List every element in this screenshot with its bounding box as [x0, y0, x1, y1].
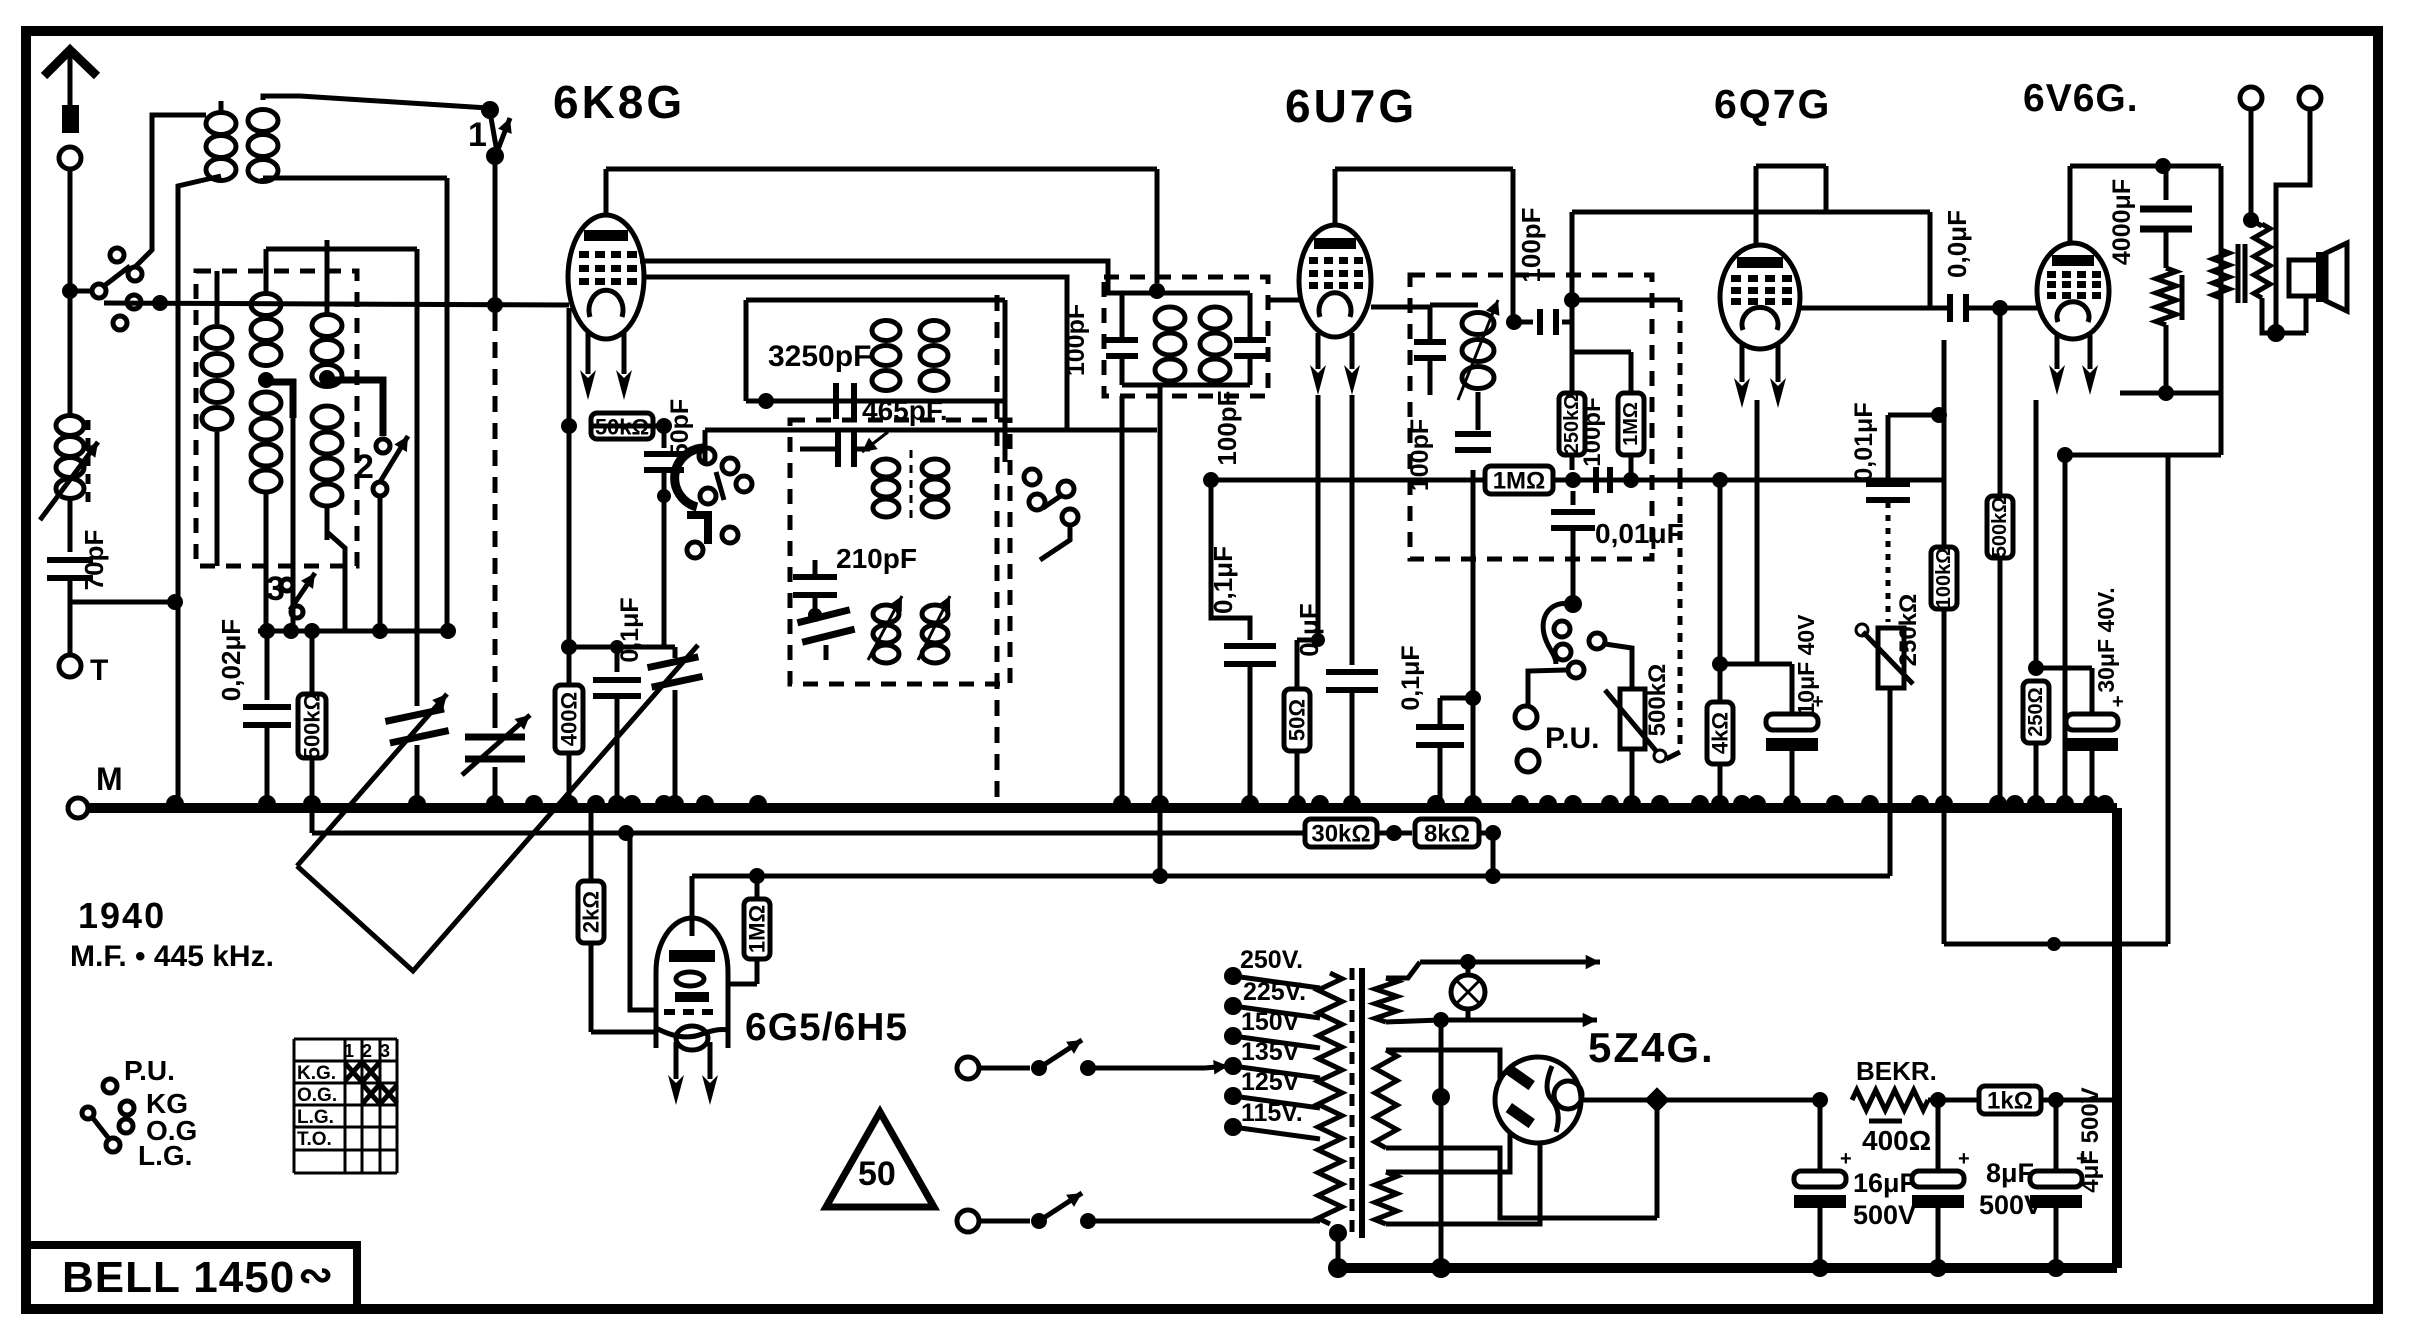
dashed box IF1	[1104, 277, 1268, 396]
svg-text:0,01μF: 0,01μF	[1595, 518, 1684, 549]
wire switch1 down	[493, 156, 498, 722]
wire 6Q7G grid	[1719, 420, 1721, 480]
resistor 400Ohm	[555, 647, 583, 753]
svg-text:100kΩ: 100kΩ	[1933, 548, 1955, 609]
wire IF1 left to bus	[1120, 396, 1125, 808]
svg-text:400Ω: 400Ω	[557, 692, 582, 746]
svg-text:1MΩ: 1MΩ	[1620, 402, 1642, 446]
wire 6V6G cath y455	[2057, 447, 2221, 808]
resistor 2kOhm	[578, 808, 658, 1032]
wire row to bus x267	[265, 631, 270, 700]
resistor 250kOhm	[1559, 352, 1585, 470]
capacitor 70pF	[47, 530, 109, 591]
wire 6Q7G cathode	[1755, 400, 1760, 664]
label 6G5/6H5	[745, 1006, 908, 1049]
output transformer secondary	[2243, 212, 2270, 298]
rotary contacts right	[1005, 401, 1078, 560]
triangle 50	[826, 1112, 934, 1207]
svg-text:+: +	[1958, 1148, 1970, 1170]
coil L5 tap elbow	[319, 370, 383, 436]
svg-text:3: 3	[380, 1041, 390, 1061]
svg-text:4000μF: 4000μF	[2108, 179, 2136, 265]
coil L4 lower	[251, 392, 281, 631]
svg-text:0,1μF: 0,1μF	[1397, 645, 1425, 710]
resistor 500kOhm	[298, 631, 326, 833]
capacitor 0,1uF c	[1397, 645, 1473, 808]
capacitor osc tuning	[647, 647, 702, 808]
tube 6G5 pins	[668, 1042, 718, 1105]
wire 6K8G plate y261	[640, 261, 1120, 293]
tube 6K8G	[568, 215, 644, 339]
svg-text:100pF: 100pF	[1579, 397, 1606, 466]
svg-text:M: M	[96, 761, 123, 797]
capacitor 465pF	[800, 395, 948, 467]
svg-text:1940: 1940	[78, 895, 166, 936]
resistor 8kOhm	[1415, 819, 1501, 876]
capacitor 50pF	[644, 399, 694, 647]
dashed box IF2	[1410, 275, 1652, 559]
resistor 30kOhm	[1283, 819, 1412, 848]
svg-text:P.U.: P.U.	[124, 1055, 175, 1086]
cap 8uF 500V	[1912, 1100, 2042, 1268]
radio/PU switch	[1543, 595, 1632, 688]
capacitor 3250pF tank	[746, 300, 1005, 419]
svg-text:K.G.: K.G.	[297, 1063, 336, 1084]
coil L1 primary	[206, 101, 236, 181]
coil L4 upper	[251, 249, 417, 366]
resistor 1kOhm	[1979, 1086, 2117, 1115]
capacitor det coupling	[1506, 169, 1572, 335]
cap 16uF 500V	[1794, 1100, 1916, 1268]
wire grid line y308	[104, 295, 569, 313]
band switch S1a	[70, 248, 142, 330]
svg-text:0,1μF: 0,1μF	[1208, 546, 1238, 614]
tap 150V	[1224, 1008, 1320, 1048]
capacitor 0,1uF a	[1208, 480, 1276, 808]
tone pot 250kOhm	[1856, 594, 1922, 876]
svg-text:T.O.: T.O.	[297, 1129, 332, 1150]
bottom power bus	[1328, 1258, 2117, 1278]
terminal out B	[2276, 87, 2321, 333]
svg-text:500V: 500V	[1853, 1200, 1916, 1230]
svg-text:8μF: 8μF	[1986, 1158, 2034, 1188]
wire grid feed	[1572, 300, 1680, 480]
svg-text:T: T	[90, 654, 108, 687]
wire feedback down	[2166, 393, 2168, 944]
cap 10uF 40V	[1720, 614, 1824, 808]
coil osc lower A	[868, 596, 902, 663]
label 100pF IF1	[1212, 390, 1242, 465]
coil L5 upper	[312, 240, 342, 387]
svg-text:0,01μF: 0,01μF	[1850, 402, 1878, 481]
wire L1 bottom down	[70, 176, 221, 808]
svg-text:100pF: 100pF	[1212, 390, 1242, 465]
mains switch top	[957, 1040, 1228, 1079]
capacitor 3250pF	[0, 0, 790, 390]
svg-text:4μF 500V: 4μF 500V	[2077, 1087, 2104, 1192]
label 1940	[78, 895, 166, 936]
svg-text:0,1μF: 0,1μF	[616, 597, 644, 662]
svg-text:2: 2	[362, 1041, 372, 1061]
dial lamp	[1451, 962, 1485, 1020]
svg-text:0,0μF: 0,0μF	[1942, 210, 1972, 278]
capacitor 4000pF	[2108, 166, 2192, 268]
wire x2221	[2219, 166, 2224, 455]
label 6Q7G	[1714, 81, 1831, 127]
AVC line A	[312, 825, 1283, 841]
resistor tone	[2156, 268, 2182, 401]
svg-text:50Ω: 50Ω	[1285, 699, 1310, 741]
cap 30uF 40V	[2036, 587, 2124, 808]
resistor 1MOhm h	[1485, 466, 1553, 495]
svg-text:125V: 125V	[1241, 1068, 1300, 1096]
tube 6Q7G pins	[1734, 345, 1786, 408]
wire cap to T	[68, 578, 73, 655]
svg-text:1kΩ: 1kΩ	[1987, 1088, 2033, 1115]
svg-text:210pF: 210pF	[836, 543, 917, 574]
dashed box oscillator	[790, 420, 1010, 684]
resistor 50Ohm	[1284, 633, 1325, 808]
IF2 cap left	[1414, 305, 1446, 395]
svg-text:L.G.: L.G.	[138, 1140, 192, 1171]
wire antenna down	[62, 169, 78, 415]
resistor BEKR 400Ohm	[1852, 1056, 1978, 1156]
wire x380 row-bus	[0, 0, 1, 1]
HT rail	[1667, 1092, 1828, 1108]
resistor 1MOhm 6G5	[728, 876, 770, 984]
tuning link arm	[297, 694, 447, 866]
wire IF1 right down	[1158, 385, 1163, 876]
svg-text:BELL 1450: BELL 1450	[62, 1253, 295, 1302]
wire 2221-393 to spk	[2220, 393, 2222, 455]
tube 5Z4G	[1495, 1057, 1582, 1143]
resistor 500kOhm grid	[1987, 308, 2013, 808]
tap 115V	[1224, 1099, 1320, 1139]
PU input cluster	[82, 1055, 197, 1171]
variable cap osc box	[797, 610, 854, 660]
svg-text:6G5/6H5: 6G5/6H5	[745, 1006, 908, 1049]
tap 225V	[1224, 978, 1320, 1018]
coil L2 secondary	[248, 110, 278, 182]
svg-text:70pF: 70pF	[79, 530, 109, 591]
svg-text:500kΩ: 500kΩ	[1644, 664, 1671, 737]
AVC line	[1203, 472, 1485, 488]
wire 6U7G grid to IF1	[1268, 298, 1299, 303]
svg-text:16μF: 16μF	[1853, 1168, 1916, 1198]
svg-text:BEKR.: BEKR.	[1856, 1056, 1937, 1086]
AVC line right	[1553, 472, 1944, 488]
svg-text:1: 1	[468, 116, 487, 154]
coil 3250 primary	[872, 321, 900, 391]
capacitor 0,01uF det	[1551, 491, 1684, 601]
label 6V6G.	[2023, 77, 2139, 120]
transformer core	[1352, 968, 1362, 1238]
svg-text:250Ω: 250Ω	[2025, 687, 2047, 736]
coil osc lower B	[918, 596, 950, 663]
svg-text:2kΩ: 2kΩ	[579, 891, 604, 933]
resistor 50kOhm	[591, 413, 672, 440]
rect fil winding	[1375, 1050, 1657, 1218]
svg-text:6K8G: 6K8G	[553, 76, 685, 128]
capacitor 100pF det	[1573, 397, 1610, 493]
tuning link V	[297, 645, 698, 971]
svg-text:+: +	[2112, 691, 2124, 713]
coil 3250 secondary	[920, 321, 948, 391]
coil osc upper A	[873, 459, 899, 517]
switch 3	[266, 570, 315, 618]
tube 6U7G	[1299, 225, 1371, 337]
svg-text:1: 1	[344, 1041, 354, 1061]
wire center heater	[1432, 1020, 1450, 1268]
resistor 250Ohm	[2023, 400, 2049, 808]
svg-text:225V.: 225V.	[1243, 978, 1306, 1006]
wave table	[294, 1039, 397, 1173]
wire y430 line	[705, 430, 1157, 465]
rotary switch wafer	[675, 448, 752, 558]
IF2 top bar	[1420, 303, 1478, 308]
heater line 1	[1420, 954, 1600, 970]
terminal out A	[2240, 87, 2262, 220]
wire 6V6G plate	[2070, 158, 2221, 243]
capacitor 0,1uF osc	[569, 597, 675, 808]
coil L4 tap elbow	[258, 372, 293, 631]
tube 6V6G	[2037, 243, 2109, 339]
wire 6U7G plate	[1371, 305, 1430, 310]
svg-text:2: 2	[355, 448, 374, 486]
svg-text:0,02μF: 0,02μF	[216, 619, 246, 701]
IF2 sec cap	[1406, 419, 1491, 491]
wire 6K8G top cap	[604, 169, 609, 216]
variable capacitor C2	[462, 700, 530, 808]
transformer tap stub	[1329, 1224, 1347, 1268]
tap 125V	[1224, 1068, 1320, 1108]
IF2 coil	[1458, 295, 1499, 400]
IF1 coil left	[1155, 293, 1185, 381]
wire L2 bottom down	[263, 178, 447, 183]
speaker	[2276, 243, 2347, 333]
wire L2 top to switch 1	[263, 96, 488, 108]
wire 6U7G sup	[1316, 395, 1321, 640]
antenna terminal	[59, 147, 81, 169]
tube 6G5	[656, 918, 728, 1050]
line B	[692, 868, 1890, 884]
antenna symbol	[44, 50, 97, 133]
svg-text:100pF: 100pF	[1516, 207, 1546, 282]
mains switch bottom	[957, 1193, 1320, 1232]
svg-text:465pF.: 465pF.	[862, 395, 948, 426]
output transformer core	[2238, 244, 2245, 303]
wire 6U7G grid cap	[1335, 169, 1513, 225]
right power bus	[2112, 808, 2122, 1268]
svg-text:5Z4G.: 5Z4G.	[1588, 1024, 1715, 1071]
svg-text:30kΩ: 30kΩ	[1311, 821, 1370, 848]
svg-text:8kΩ: 8kΩ	[1424, 821, 1470, 848]
wire top line to IF1	[606, 169, 1157, 283]
heater line 2	[1433, 1012, 1597, 1028]
shield dash osc	[995, 295, 1000, 805]
IF1 coil right	[1200, 307, 1230, 381]
svg-text:∾: ∾	[298, 1251, 333, 1298]
resistor 4kOhm	[1707, 480, 1733, 808]
tube 6U7G pins	[1310, 333, 1360, 395]
tube 6K8G pins	[580, 332, 632, 400]
coil L3	[202, 271, 232, 566]
terminal M	[68, 761, 123, 818]
svg-text:1MΩ: 1MΩ	[1493, 468, 1546, 495]
wire 6G5 top	[690, 876, 695, 936]
svg-text:L.G.: L.G.	[297, 1107, 334, 1128]
coil L5 lower	[312, 406, 342, 540]
svg-text:400Ω: 400Ω	[1862, 1125, 1931, 1156]
svg-text:500kΩ: 500kΩ	[1989, 497, 2011, 558]
tube 6V6G pins	[2049, 335, 2098, 395]
wire coil to cap	[68, 500, 73, 552]
wire 6Q7G plate loop	[1564, 212, 1930, 352]
svg-text:6U7G: 6U7G	[1285, 80, 1417, 132]
svg-text:150V: 150V	[1241, 1008, 1300, 1036]
IF1 cap right	[1234, 293, 1266, 385]
wire sec bottom	[2262, 298, 2285, 342]
junction row y631	[258, 623, 456, 639]
svg-text:4kΩ: 4kΩ	[1708, 712, 1733, 754]
tube 6Q7G	[1720, 245, 1800, 349]
IF1 bottom bar	[1122, 383, 1250, 388]
bus junction blobs	[166, 795, 2114, 813]
svg-text:10μF 40V: 10μF 40V	[1793, 614, 1819, 716]
capacitor 210pF	[793, 543, 917, 622]
volume pot 500kOhm	[1605, 664, 1671, 808]
wire 6Q7G top cap	[1756, 166, 1826, 245]
title box BELL 1450	[31, 1245, 357, 1304]
capacitor 0,01uF 2	[1850, 402, 1947, 622]
wire 5Z4G out	[1580, 1087, 1670, 1218]
wire 6K8G cathode down	[561, 308, 577, 808]
IF1 cap left	[1106, 293, 1138, 385]
svg-text:500kΩ: 500kΩ	[300, 693, 325, 760]
shield dashes	[1666, 480, 1680, 759]
svg-text:135V: 135V	[1241, 1038, 1300, 1066]
svg-text:+: +	[1840, 1148, 1852, 1170]
label 6K8G	[553, 76, 685, 128]
svg-text:3250pF: 3250pF	[768, 340, 871, 373]
svg-text:250V.: 250V.	[1240, 946, 1303, 974]
switch 2	[355, 436, 408, 631]
svg-text:6V6G.: 6V6G.	[2023, 77, 2139, 120]
capacitor 0,02uF	[216, 619, 291, 808]
tap 250V	[1224, 946, 1320, 988]
variable capacitor C-ant	[385, 249, 448, 808]
svg-text:250kΩ: 250kΩ	[1895, 594, 1922, 667]
svg-text:O.G.: O.G.	[297, 1085, 337, 1106]
wire y944	[1944, 937, 2168, 951]
wire AVC drop	[0, 0, 1, 1]
svg-text:1MΩ: 1MΩ	[745, 905, 770, 953]
bus M	[88, 803, 2117, 813]
switch 1	[468, 101, 512, 165]
wire L5 bottom elbow	[327, 532, 345, 631]
transformer primary	[1318, 973, 1342, 1224]
svg-text:M.F. • 445 kHz.: M.F. • 445 kHz.	[70, 940, 274, 973]
label MF 445kHz	[70, 940, 274, 973]
capacitor 0,1uF b	[1294, 395, 1378, 808]
wire grid 6G5	[630, 833, 668, 1010]
heater winding	[1375, 962, 1440, 1022]
PU terminals	[1515, 670, 1599, 772]
IF1 top bar	[1108, 261, 1250, 299]
dashed box band coils	[196, 271, 357, 566]
capacitor 0,01uF coupl	[1930, 210, 2040, 322]
wire x1944 bus-down	[1942, 808, 1947, 944]
cap 4uF 500V	[2030, 1087, 2104, 1268]
wire switch to coil top	[135, 115, 206, 267]
tap 135V	[1224, 1038, 1320, 1078]
svg-text:115V.: 115V.	[1241, 1099, 1303, 1127]
terminal T	[59, 654, 108, 687]
wire osc grid path	[664, 430, 700, 496]
svg-text:30μF 40V.: 30μF 40V.	[2093, 587, 2119, 692]
wire 6K8G grid2 y277	[644, 277, 1090, 430]
coil osc upper B	[911, 450, 948, 525]
svg-text:6Q7G: 6Q7G	[1714, 81, 1831, 127]
antenna loading coil	[40, 416, 98, 521]
resistor 1MOhm v	[1513, 323, 1644, 480]
wire osc box bottom	[885, 676, 887, 700]
IF2 sec bottom	[1465, 392, 1481, 808]
wire x448 up	[445, 178, 450, 631]
svg-text:100pF: 100pF	[1062, 304, 1090, 376]
output transformer primary	[2213, 250, 2229, 298]
wire y393	[2108, 278, 2221, 393]
resistor 100kOhm	[1931, 340, 1957, 808]
svg-text:P.U.: P.U.	[1545, 722, 1599, 755]
label 6U7G	[1285, 80, 1417, 132]
svg-text:50: 50	[858, 1155, 896, 1193]
HV winding	[1375, 1132, 1540, 1224]
label 5Z4G.	[1588, 1024, 1715, 1071]
